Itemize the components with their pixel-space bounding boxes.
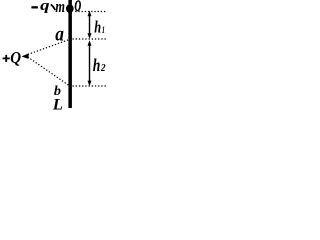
svg-text:Q: Q bbox=[10, 48, 21, 67]
svg-text:O: O bbox=[75, 0, 82, 15]
svg-text:2: 2 bbox=[100, 63, 106, 74]
dotted sight line Q to b bbox=[28, 57, 69, 86]
svg-text:m: m bbox=[55, 0, 65, 16]
svg-text:1: 1 bbox=[102, 25, 105, 35]
svg-text:h: h bbox=[93, 55, 101, 75]
svg-text:q: q bbox=[40, 0, 49, 14]
rod (vertical insulating rod) bbox=[68, 0, 72, 108]
dotted line at b level bbox=[73, 85, 107, 87]
dotted line at a level bbox=[73, 38, 107, 40]
background bbox=[0, 0, 107, 112]
bead -q,m on rod at O bbox=[66, 4, 74, 13]
h1 dimension arrow bbox=[88, 11, 92, 39]
svg-text:h: h bbox=[94, 18, 101, 37]
label minus sign of -q bbox=[31, 6, 38, 8]
svg-text:a: a bbox=[55, 24, 64, 45]
charge +Q plus sign bbox=[3, 58, 10, 60]
dotted line at O level bbox=[75, 11, 106, 13]
h2 dimension arrow bbox=[88, 40, 92, 86]
enumeration comma bbox=[51, 5, 54, 9]
arrowhead pointing at +Q bbox=[22, 53, 29, 59]
dotted sight line Q to a bbox=[28, 40, 69, 55]
svg-text:L: L bbox=[52, 95, 63, 113]
